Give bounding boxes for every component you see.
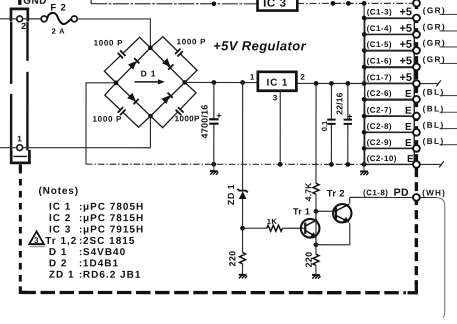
diode D1a (top-left arm) [128,58,139,69]
wire IC1 pin3 to ground bus [279,91,281,164]
transistor Tr2 [316,188,352,244]
capacitor 22/16 [334,83,354,164]
svg-text:1: 1 [17,134,22,143]
snubber capacitor (bottom-right) [175,107,184,115]
svg-text:Tr 1: Tr 1 [293,207,310,217]
connector pins (right column) [413,0,420,7]
junction node (ZD1 / 1K) [240,226,245,231]
svg-text:PD: PD [394,187,409,199]
svg-text:+5V Regulator: +5V Regulator [213,38,307,53]
comb junction dots [362,16,367,21]
bridge rectifier D1 (inner diamond with diodes) [116,48,185,116]
svg-text:(C1-5): (C1-5) [367,40,392,49]
svg-text:(BL): (BL) [423,104,445,113]
junction node (+5/4.7K) [314,81,319,86]
wire tails to sheet edge (BL rows) [440,95,457,97]
svg-text:μPC 7915H: μPC 7915H [83,224,144,235]
label box C2-9 [365,132,415,148]
svg-text:1000P: 1000P [175,114,200,123]
junction node (bus/22-16) [345,162,350,167]
capacitor 0.1 [320,83,336,164]
svg-text:(GR): (GR) [423,55,446,64]
zener diode ZD1 [226,82,248,252]
svg-text:3: 3 [34,236,39,245]
ground (bus at 4700/16) [210,164,218,175]
svg-text:E: E [405,122,412,133]
label box C2-8 [365,116,415,132]
junction node (+5/comb) [362,81,367,86]
svg-text:D 1: D 1 [141,69,157,79]
wire pin2 to fuse [0,18,41,20]
wire PD output [350,196,437,198]
transistor Tr1 [293,207,320,245]
svg-text:2SC 1815: 2SC 1815 [83,236,135,247]
connector CN (AC line input) [11,0,30,171]
svg-text:(C2-8): (C2-8) [367,122,392,131]
snubber capacitor (top-left) [117,50,125,59]
snubber capacitor (top-right) [175,48,183,57]
svg-text:(GR): (GR) [423,23,446,32]
svg-text:(GR): (GR) [423,39,446,48]
svg-text:2 A: 2 A [52,27,66,36]
svg-text:+5: +5 [399,55,412,67]
svg-text:(BL): (BL) [423,121,445,130]
svg-text:IC 1: IC 1 [49,202,71,213]
svg-text:(C2-10): (C2-10) [367,154,397,163]
right comb E [363,99,365,164]
svg-text:(GR): (GR) [423,6,446,15]
junction node (bus/E comb) [362,162,367,167]
label box C1-6 [365,51,415,67]
resistor 220 (ZD1 branch) [227,251,245,274]
junction node (rail/ZD1 branch) [240,80,245,85]
svg-text:GND: GND [23,0,46,7]
svg-text:(BL): (BL) [423,88,445,97]
IC1 voltage regulator [258,72,297,91]
pin 1 [17,145,23,151]
ground (ZD1 branch) [239,275,247,279]
wire tails to sheet edge (GR rows) [440,13,457,15]
capacitor 4700/16 [200,82,224,164]
svg-text:+5: +5 [400,6,413,18]
label box C1-7 [365,67,415,83]
svg-text:+5: +5 [399,72,412,84]
wire pin1 [0,147,150,149]
junction node (bridge left) [114,81,119,86]
IC3 box (clipped at top) [258,0,298,11]
diode D1b (top-right arm) [162,58,173,69]
outer snubber-cap ring [104,37,197,128]
svg-text:+5: +5 [399,39,412,51]
svg-text:+: + [214,113,224,118]
svg-text:(WH): (WH) [422,189,446,198]
unregulated + rail [185,81,258,83]
svg-text:1K: 1K [267,217,278,226]
PCB edge dashed border (bottom) [21,291,405,295]
svg-text:S4VB40: S4VB40 [83,247,126,258]
junction node (emitters / 220) [314,242,319,247]
svg-text:0.1: 0.1 [320,121,329,131]
svg-text:+: + [345,114,355,119]
svg-text:E: E [405,138,412,149]
stub after C2-10 [420,163,441,165]
svg-text:4.7K: 4.7K [303,182,313,201]
snubber capacitor (bottom-left) [117,107,125,116]
label box C1-4 [365,18,415,34]
svg-text:1000 P: 1000 P [93,115,123,124]
wire bridge left vertex to ground drop [86,83,116,164]
svg-text:F 2: F 2 [50,2,66,13]
junction node (bus/IC1 pin3) [278,162,283,167]
svg-text:(C2-9): (C2-9) [367,138,392,147]
svg-text:IC 3: IC 3 [263,0,287,10]
svg-text:(C2-6): (C2-6) [367,89,392,98]
diode D1c (bottom-left arm) [127,93,138,104]
pin 2 [17,16,23,22]
svg-text:(C1-4): (C1-4) [367,24,392,33]
svg-text:(C1-6): (C1-6) [367,56,392,65]
label box C1-5 [365,34,415,50]
row wires C1-3..C1-6 [364,17,413,19]
label box C2-6 [365,83,415,99]
svg-text:2: 2 [300,73,305,82]
top +B chain line [90,0,92,4]
svg-text:(C1-8): (C1-8) [363,188,388,197]
svg-text:(C1-3): (C1-3) [367,7,392,16]
svg-text:1: 1 [250,73,255,82]
svg-text:220: 220 [304,252,314,268]
svg-text:D 2: D 2 [49,258,68,269]
svg-text:ZD 1: ZD 1 [49,270,75,281]
PCB edge dashed border (right) [415,0,419,284]
svg-text:IC 1: IC 1 [267,78,289,89]
ground (emitter 220) [312,275,320,279]
svg-text:1000 P: 1000 P [177,37,207,46]
resistor 220 (Tr1 emitter) [304,245,319,275]
svg-text:E: E [405,89,412,100]
svg-text:ZD 1: ZD 1 [226,184,236,205]
junction node (Tr1 collector / Tr2 base) [314,209,319,214]
resistor 1K (horizontal) [243,217,306,231]
svg-text:4700/16: 4700/16 [200,105,210,139]
svg-text:(C1-7): (C1-7) [367,73,392,82]
caution triangle mark 3 [29,231,44,244]
svg-text:μPC 7805H: μPC 7805H [83,202,144,213]
svg-text:Tr 2: Tr 2 [327,188,345,199]
svg-text:2: 2 [21,21,26,31]
svg-text:Tr 1,2: Tr 1,2 [45,236,77,247]
svg-text:22/16: 22/16 [334,92,344,114]
resistor 4.7K (vertical) [303,83,319,244]
svg-text:IC 2: IC 2 [49,213,71,224]
wire Tr2 base [316,210,336,212]
svg-text:(BL): (BL) [423,137,445,146]
ground bus (chain line) [86,163,364,165]
junction node (+5/22-16) [345,81,350,86]
PCB edge dashed border (left) [19,167,22,287]
svg-text:(C2-7): (C2-7) [367,106,392,115]
ground (E comb) [360,164,368,175]
wire pin1 up to bridge bottom [149,116,151,148]
svg-text:3: 3 [273,93,278,102]
junction node (rail/4700) [211,80,216,85]
label box C2-7 [365,100,415,116]
label box C2-10 [365,148,415,164]
svg-text:IC 3: IC 3 [49,224,71,235]
svg-text:(Notes): (Notes) [38,186,78,197]
junction node (bridge bottom) [148,114,153,119]
fuse F2 [41,13,77,24]
wire fuse to bridge top [77,19,150,48]
junction node (bus/0.1) [329,162,334,167]
stub after C1-7 [420,83,438,85]
svg-text:D 1: D 1 [49,247,68,258]
svg-text:220: 220 [227,251,237,267]
+5V rail [296,82,413,84]
right comb +5 [363,3,365,83]
junction node (bridge right) [182,80,187,85]
junction node (bus/4700) [211,162,216,167]
svg-text:μPC 7815H: μPC 7815H [83,213,144,224]
junction node (bridge top) [148,46,153,51]
svg-text:RD6.2 JB1: RD6.2 JB1 [83,270,141,281]
junction node (+5/0.1) [329,81,334,86]
svg-text:1D4B1: 1D4B1 [83,258,119,269]
row wires C2-6..C2-9 [364,98,413,100]
svg-text:1000 P: 1000 P [94,39,124,48]
svg-text:E: E [405,106,412,117]
svg-text:+5: +5 [399,23,412,35]
diode D1d (bottom-right arm) [161,93,172,104]
